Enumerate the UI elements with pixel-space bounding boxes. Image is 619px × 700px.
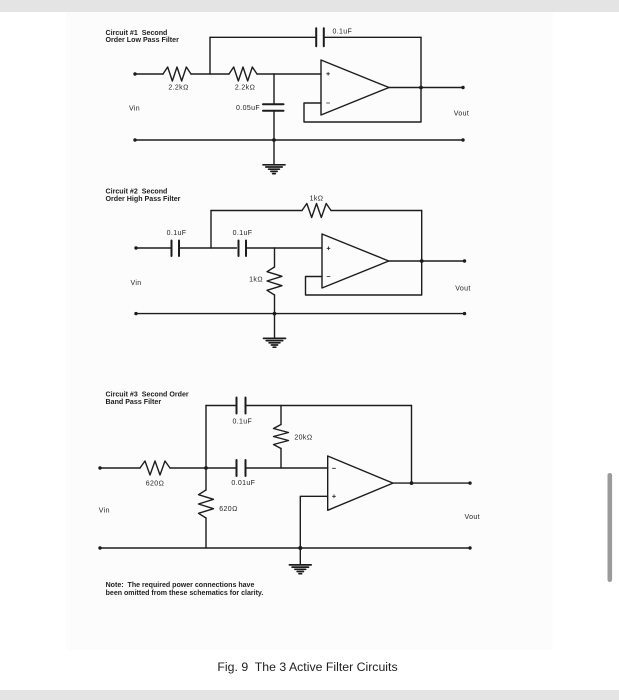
terminal rail left dot bbox=[98, 546, 101, 549]
wire node A down to R3 bbox=[205, 468, 207, 490]
wire rail to ground symbol bbox=[274, 314, 276, 339]
resistor R3 620 vertical bbox=[199, 490, 214, 518]
resistor R2 20k vertical bbox=[274, 425, 289, 449]
wire C1 to C2 through node A bbox=[179, 247, 237, 249]
op-amp U1 plus mark bbox=[327, 72, 330, 75]
capacitor C1 0.1uF plates bbox=[237, 398, 246, 414]
wire C1 to right vertical bbox=[324, 36, 421, 38]
resistor R1 1k vertical bbox=[267, 267, 282, 295]
resistor R2 2.2k bbox=[229, 67, 257, 81]
scrollbar bbox=[608, 473, 613, 582]
wire R3 to rail bbox=[205, 518, 207, 548]
wire node A up to top feedback bbox=[209, 37, 211, 74]
top gray band bbox=[0, 0, 619, 12]
terminal rail right dot bbox=[461, 138, 464, 141]
op-amp U3 plus mark bbox=[333, 495, 336, 498]
ground symbol circuit 2 bbox=[264, 338, 286, 347]
wire R2 to node B bbox=[280, 449, 282, 469]
wire C1 to right vertical bbox=[246, 405, 412, 407]
ground rail wire bbox=[136, 313, 465, 315]
svg-text:Fig. 9 The 3 Active Filter Ci: Fig. 9 The 3 Active Filter Circuits bbox=[217, 660, 397, 674]
svg-text:Vin: Vin bbox=[129, 106, 140, 113]
svg-text:0.1uF: 0.1uF bbox=[167, 230, 187, 237]
terminal Vout dot bbox=[463, 259, 466, 262]
wire rail to ground symbol bbox=[299, 548, 301, 565]
svg-text:Vout: Vout bbox=[464, 514, 479, 521]
op-amp U1 minus mark bbox=[327, 102, 330, 104]
svg-text:Vout: Vout bbox=[454, 111, 469, 118]
wire R2 to right vertical bbox=[331, 210, 422, 212]
wire top left to C1 bbox=[206, 405, 237, 407]
wire R1 to R2 through node A bbox=[191, 73, 229, 75]
wire Vin to R1 bbox=[100, 467, 140, 469]
svg-text:0.1uF: 0.1uF bbox=[232, 419, 252, 426]
rail ground junction dot bbox=[298, 546, 302, 550]
svg-text:0.1uF: 0.1uF bbox=[333, 28, 353, 35]
wire node B down to R1 bbox=[274, 248, 276, 267]
wire op-amp output bbox=[389, 87, 463, 89]
ground rail wire bbox=[135, 139, 463, 141]
terminal Vin dot bbox=[134, 246, 137, 249]
terminal rail right dot bbox=[468, 546, 471, 549]
svg-text:Vin: Vin bbox=[99, 508, 110, 515]
terminal rail left dot bbox=[133, 138, 136, 141]
rail junction dot bbox=[272, 138, 276, 142]
capacitor C2 0.1uF plates bbox=[239, 241, 247, 257]
wire node A up to top feedback bbox=[210, 211, 212, 249]
ground rail wire bbox=[100, 547, 470, 549]
page (scanned figure background) bbox=[66, 12, 553, 650]
output node dot bbox=[410, 481, 414, 485]
terminal rail left dot bbox=[134, 312, 137, 315]
wire R1 to rail bbox=[274, 295, 276, 314]
terminal Vout dot bbox=[461, 86, 464, 89]
op-amp U2 plus mark bbox=[327, 247, 330, 250]
wire plus input to ground rail bbox=[300, 496, 327, 548]
ground symbol circuit 3 bbox=[289, 565, 311, 574]
wire top left to C1 bbox=[210, 36, 316, 38]
terminal Vin dot bbox=[133, 72, 136, 75]
svg-text:Band Pass Filter: Band Pass Filter bbox=[106, 398, 162, 406]
wire node B down to C2 bbox=[273, 74, 275, 104]
wire C2 to op-amp minus input bbox=[246, 467, 328, 469]
terminal Vin dot bbox=[98, 466, 101, 469]
wire minus feedback loop bbox=[304, 37, 421, 122]
node A junction dot bbox=[204, 466, 208, 470]
capacitor C2 0.05uF plates bbox=[263, 104, 284, 110]
resistor R1 2.2k bbox=[163, 67, 191, 81]
wire Vin to R1 bbox=[135, 73, 163, 75]
svg-text:2.2kΩ: 2.2kΩ bbox=[235, 85, 255, 92]
svg-text:Order Low Pass Filter: Order Low Pass Filter bbox=[106, 36, 180, 44]
wire node A up to top feedback bbox=[205, 406, 207, 469]
wire C2 to op-amp plus input bbox=[246, 247, 322, 249]
svg-text:2.2kΩ: 2.2kΩ bbox=[168, 85, 188, 92]
wire op-amp output bbox=[393, 482, 470, 484]
wire C2 to ground rail bbox=[273, 111, 275, 140]
wire right vertical feedback bbox=[411, 406, 413, 484]
svg-text:0.05uF: 0.05uF bbox=[236, 105, 260, 112]
capacitor C1 0.1uF plates bbox=[316, 28, 324, 46]
bottom gray band bbox=[0, 690, 619, 700]
terminal rail right dot bbox=[463, 312, 466, 315]
wire R2 to op-amp plus input bbox=[257, 73, 321, 75]
svg-text:620Ω: 620Ω bbox=[219, 506, 237, 513]
svg-text:Vout: Vout bbox=[455, 285, 470, 292]
wire top left to R feedback bbox=[211, 210, 302, 212]
wire R1 to C2 through node A bbox=[170, 467, 237, 469]
rail junction dot bbox=[273, 312, 277, 316]
op-amp U2 bbox=[322, 234, 389, 288]
wire op-amp output bbox=[389, 260, 465, 262]
svg-text:Vin: Vin bbox=[130, 280, 141, 287]
wire top node down to R2 bbox=[280, 406, 282, 425]
svg-text:Note: The required power conn: Note: The required power connections hav… bbox=[106, 582, 255, 589]
wire minus feedback loop bbox=[306, 211, 422, 296]
svg-text:1kΩ: 1kΩ bbox=[310, 196, 324, 203]
op-amp U2 minus mark bbox=[327, 276, 330, 278]
wire Vin to C1 bbox=[136, 247, 172, 249]
op-amp U1 bbox=[321, 60, 389, 115]
capacitor C1 0.1uF plates bbox=[172, 241, 180, 257]
svg-text:been omitted from these schema: been omitted from these schematics for c… bbox=[106, 590, 264, 597]
svg-text:0.01uF: 0.01uF bbox=[231, 480, 255, 487]
svg-text:1kΩ: 1kΩ bbox=[249, 277, 263, 284]
resistor R1 620 bbox=[140, 461, 170, 475]
svg-text:0.1uF: 0.1uF bbox=[233, 230, 253, 237]
capacitor C2 0.01uF plates bbox=[237, 460, 246, 476]
output node dot bbox=[419, 86, 423, 90]
ground symbol circuit 1 bbox=[263, 165, 285, 174]
svg-text:20kΩ: 20kΩ bbox=[294, 435, 312, 442]
svg-text:620Ω: 620Ω bbox=[146, 481, 164, 488]
wire rail to ground symbol bbox=[273, 140, 275, 165]
terminal Vout dot bbox=[468, 481, 471, 484]
output node dot bbox=[420, 259, 424, 263]
resistor R2 1k feedback bbox=[302, 204, 331, 218]
op-amp U3 minus mark bbox=[333, 467, 336, 469]
op-amp U3 bbox=[328, 456, 393, 510]
svg-text:Order High Pass Filter: Order High Pass Filter bbox=[106, 195, 181, 203]
